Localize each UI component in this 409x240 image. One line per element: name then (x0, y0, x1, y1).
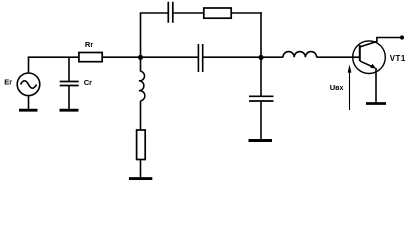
capacitor C3 (shunt) (249, 96, 274, 101)
capacitor C2 (series) (198, 44, 202, 72)
inductor L2 (horizontal) (283, 52, 317, 58)
terminal dot (400, 35, 404, 39)
ground under VT1 (366, 102, 386, 105)
wire R1 right (231, 12, 262, 14)
VT1 emitter (360, 61, 375, 68)
resistor R2 (vertical) (137, 130, 146, 160)
wire Cг top (68, 57, 70, 81)
inductor L1 (vertical) (139, 71, 145, 101)
wire main line middle (102, 56, 197, 58)
wire to right junction (204, 56, 262, 58)
svg-text:Eг: Eг (4, 78, 12, 87)
wire top left (140, 12, 168, 14)
sine wave inside Eг (21, 81, 37, 89)
svg-text:Uвх: Uвх (330, 83, 344, 92)
arrow Uвх (349, 72, 351, 111)
ground under R2 (129, 177, 152, 180)
resistor R1 (top) (204, 8, 231, 18)
svg-text:Cг: Cг (84, 78, 92, 87)
wire main line left (28, 56, 79, 58)
VT1 base bar (359, 45, 361, 61)
node B (right junction) (258, 55, 263, 60)
wire node B right (261, 56, 283, 58)
wire node A down (140, 57, 142, 71)
ground under source (19, 109, 38, 112)
transistor VT1 (353, 41, 386, 74)
emitter arrowhead (370, 64, 376, 69)
ground under C3 (249, 139, 273, 142)
wire top right down (260, 12, 262, 57)
wire C3 bottom (260, 102, 262, 140)
capacitor C1 (top) (168, 2, 173, 23)
generator Eг (17, 73, 40, 96)
wire L1 to R2 (140, 101, 142, 130)
node A (left junction) (138, 55, 143, 60)
wire source top (28, 57, 30, 73)
wire node B down (260, 57, 262, 96)
wire emitter down (375, 68, 377, 102)
wire node A up (140, 13, 142, 57)
wire L2 to VT1 base (317, 56, 360, 58)
svg-text:Rг: Rг (85, 40, 93, 49)
wire Cг bottom (68, 86, 70, 110)
ground under Cг (60, 109, 79, 112)
resistor Rг (79, 53, 102, 62)
svg-text:VT1: VT1 (390, 54, 406, 63)
wire R2 bottom (140, 160, 142, 178)
VT1 collector (360, 38, 377, 47)
wire collector to terminal (376, 37, 402, 39)
capacitor Cг (60, 82, 79, 86)
wire C1 to R1 (174, 12, 204, 14)
wire source bottom (28, 95, 30, 109)
